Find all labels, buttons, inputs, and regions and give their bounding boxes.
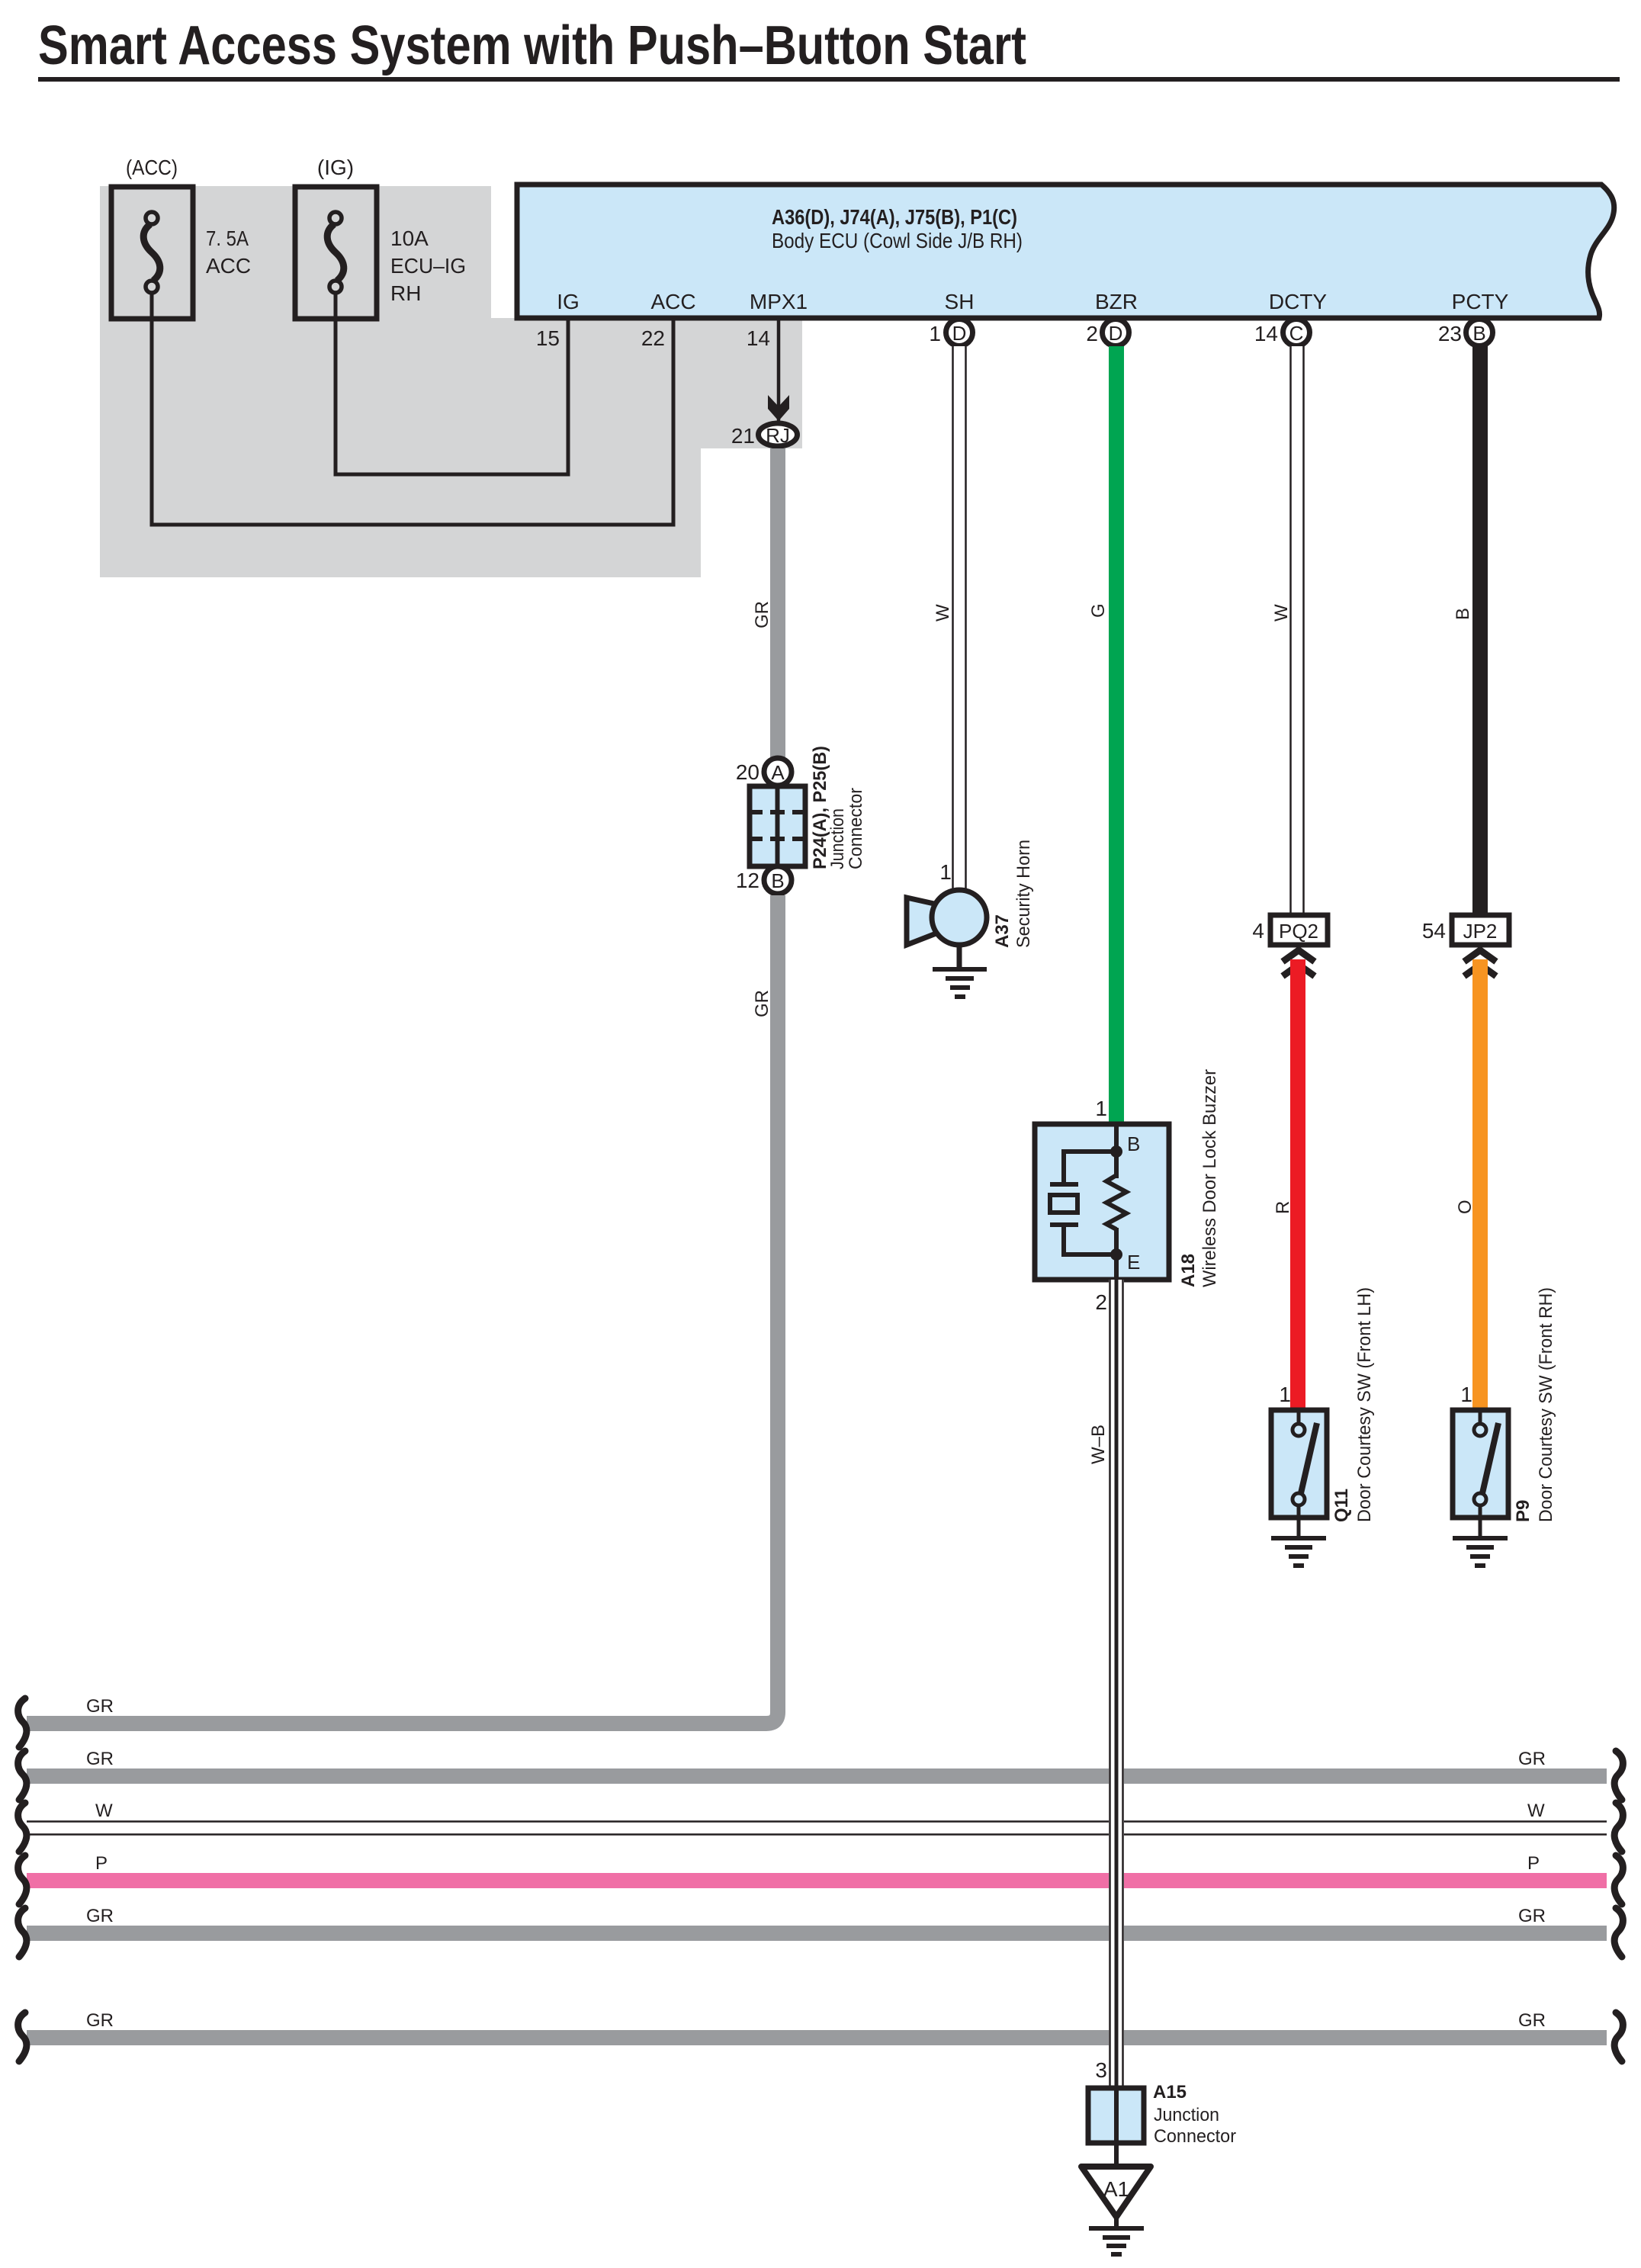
svg-text:1: 1: [939, 860, 952, 884]
svg-text:B: B: [1453, 608, 1473, 620]
MPX1 arrow wire: [777, 318, 781, 421]
svg-text:E: E: [1127, 1251, 1140, 1274]
svg-text:A1: A1: [1103, 2177, 1129, 2201]
pin 14 connector C: [1254, 320, 1310, 346]
svg-text:W: W: [1271, 604, 1292, 622]
break mark left P row4: [18, 1855, 27, 1904]
svg-text:21: 21: [731, 424, 755, 448]
fuse F1 7.5A ACC: [111, 187, 193, 319]
svg-text:1: 1: [1279, 1383, 1291, 1406]
svg-text:GR: GR: [86, 1696, 114, 1717]
svg-text:Connector: Connector: [846, 788, 866, 869]
horn ground: [933, 945, 987, 997]
horizontal wire GR row5: [27, 1926, 1607, 1941]
pin 1 connector D: [929, 320, 972, 346]
svg-text:(IG): (IG): [317, 156, 354, 179]
svg-text:Wireless Door Lock Buzzer: Wireless Door Lock Buzzer: [1199, 1069, 1220, 1287]
svg-text:B: B: [771, 869, 784, 892]
svg-text:10A: 10A: [390, 226, 429, 250]
svg-text:Smart Access System with Push–: Smart Access System with Push–Button Sta…: [38, 15, 1026, 76]
svg-text:PCTY: PCTY: [1452, 290, 1509, 313]
break mark right P row4: [1614, 1855, 1623, 1904]
svg-text:A36(D), J74(A), J75(B), P1(C): A36(D), J74(A), J75(B), P1(C): [772, 205, 1017, 229]
svg-text:Security Horn: Security Horn: [1013, 840, 1034, 948]
svg-text:Connector: Connector: [1154, 2126, 1236, 2147]
svg-text:ACC: ACC: [206, 254, 251, 278]
svg-text:Body ECU (Cowl Side J/B RH): Body ECU (Cowl Side J/B RH): [772, 229, 1023, 252]
wire O from JP2 to P9: [1472, 959, 1488, 1410]
break mark left GR row5: [18, 1908, 27, 1957]
svg-text:A15: A15: [1153, 2082, 1187, 2103]
svg-text:GR: GR: [1518, 1906, 1546, 1926]
svg-text:(ACC): (ACC): [126, 156, 178, 179]
wire G from BZR pin to buzzer: [1109, 346, 1124, 1125]
horizontal wire W row3: [27, 1820, 1607, 1836]
wire from fuse IG to ECU pin IG: [336, 293, 568, 474]
wire GR from RJ to junction connector A: [770, 448, 785, 757]
svg-text:C: C: [1289, 322, 1304, 345]
wire GR from junction B to bottom elbow and left: [27, 895, 778, 1723]
svg-text:1: 1: [929, 322, 941, 345]
svg-text:GR: GR: [752, 601, 772, 628]
svg-text:A37: A37: [992, 914, 1013, 948]
door courtesy switch Q11: [1271, 1410, 1327, 1518]
MPX1 arrowhead: [768, 395, 789, 421]
fuse F2 10A ECU-IG RH: [295, 187, 377, 319]
svg-text:14: 14: [1254, 322, 1278, 345]
break mark left W row3: [18, 1803, 27, 1852]
svg-text:14: 14: [747, 326, 770, 350]
svg-text:GR: GR: [1518, 1749, 1546, 1769]
pin 23 connector B: [1438, 320, 1493, 346]
svg-text:RJ: RJ: [766, 424, 790, 447]
svg-text:12: 12: [736, 869, 759, 892]
svg-text:O: O: [1455, 1200, 1476, 1214]
svg-text:ACC: ACC: [650, 290, 695, 313]
svg-text:B: B: [1472, 322, 1485, 345]
svg-text:Door Courtesy SW (Front LH): Door Courtesy SW (Front LH): [1354, 1287, 1375, 1522]
ground triangle A1: [1081, 2167, 1151, 2217]
svg-text:DCTY: DCTY: [1269, 290, 1328, 313]
svg-text:2: 2: [1095, 1290, 1107, 1314]
svg-text:W: W: [1527, 1801, 1545, 1821]
svg-text:54: 54: [1422, 919, 1446, 943]
P9 ground: [1453, 1505, 1508, 1566]
svg-text:BZR: BZR: [1095, 290, 1138, 313]
svg-text:Junction: Junction: [827, 808, 848, 869]
svg-text:20: 20: [736, 760, 759, 784]
horizontal wire GR row2: [27, 1768, 1607, 1784]
svg-text:1: 1: [1095, 1097, 1107, 1120]
security horn A37: [907, 890, 987, 945]
wire B from PCTY pin to JP2: [1472, 346, 1488, 915]
break mark left GR row1: [18, 1698, 27, 1747]
break mark left GR row2: [18, 1751, 27, 1800]
svg-text:RH: RH: [390, 281, 421, 305]
svg-text:15: 15: [536, 326, 560, 350]
horizontal wire GR row6: [27, 2030, 1607, 2045]
Body ECU box A36(D) J74(A) J75(B) P1(C): [517, 185, 1614, 318]
svg-text:GR: GR: [86, 1906, 114, 1926]
svg-text:P: P: [1527, 1853, 1540, 1874]
svg-text:3: 3: [1095, 2058, 1107, 2082]
wire from A15 to ground triangle: [1114, 2143, 1119, 2167]
break mark right GR row6: [1614, 2013, 1623, 2061]
horizontal wire P row4: [27, 1873, 1607, 1888]
svg-text:IG: IG: [557, 290, 580, 313]
break mark left GR row6: [18, 2013, 27, 2061]
door courtesy switch P9: [1453, 1410, 1508, 1518]
junction connector A15: [1088, 2088, 1144, 2143]
svg-text:Door Courtesy SW (Front RH): Door Courtesy SW (Front RH): [1536, 1287, 1556, 1522]
svg-text:A18: A18: [1178, 1254, 1199, 1287]
svg-text:Q11: Q11: [1331, 1489, 1352, 1522]
wire W-B from buzzer to A15: [1109, 1280, 1124, 2088]
svg-text:R: R: [1273, 1201, 1293, 1214]
svg-text:GR: GR: [86, 1749, 114, 1769]
svg-text:GR: GR: [1518, 2010, 1546, 2031]
wire from fuse ACC to ECU pin ACC: [152, 293, 673, 525]
svg-text:D: D: [952, 322, 967, 345]
svg-text:ECU–IG: ECU–IG: [390, 254, 466, 278]
gray background region: [100, 186, 802, 577]
svg-text:W: W: [95, 1801, 113, 1821]
break mark right W row3: [1614, 1803, 1623, 1852]
svg-text:W: W: [933, 604, 953, 622]
svg-text:PQ2: PQ2: [1279, 920, 1318, 943]
svg-text:SH: SH: [945, 290, 975, 313]
svg-text:W–B: W–B: [1088, 1425, 1109, 1464]
junction connector P24(A) P25(B): [750, 786, 805, 866]
PQ2 chevrons: [1283, 950, 1315, 962]
wire W from DCTY pin to PQ2: [1289, 346, 1305, 915]
ground symbol A1: [1089, 2217, 1144, 2254]
break mark right GR row5: [1614, 1908, 1623, 1957]
wire R from PQ2 to Q11: [1290, 959, 1305, 1410]
svg-text:4: 4: [1252, 919, 1264, 943]
svg-text:Junction: Junction: [1154, 2105, 1219, 2125]
Q11 ground: [1271, 1505, 1326, 1566]
RJ junction ellipse: [759, 423, 798, 446]
pin 2 connector D: [1086, 320, 1129, 346]
svg-text:1: 1: [1460, 1383, 1472, 1406]
svg-text:D: D: [1109, 322, 1123, 345]
svg-text:22: 22: [641, 326, 665, 350]
svg-text:7. 5A: 7. 5A: [206, 226, 249, 250]
svg-text:JP2: JP2: [1463, 920, 1498, 943]
svg-text:23: 23: [1438, 322, 1462, 345]
svg-text:MPX1: MPX1: [750, 290, 808, 313]
svg-text:2: 2: [1086, 322, 1098, 345]
svg-text:P9: P9: [1513, 1500, 1533, 1522]
svg-text:A: A: [771, 761, 785, 784]
svg-text:G: G: [1088, 603, 1109, 618]
svg-text:GR: GR: [86, 2010, 114, 2031]
wire W from SH pin to horn: [952, 346, 967, 891]
break mark right GR row2: [1614, 1751, 1623, 1800]
svg-text:B: B: [1127, 1132, 1140, 1155]
wireless door lock buzzer A18: [1035, 1124, 1169, 1280]
svg-text:GR: GR: [752, 990, 772, 1017]
JP2 chevrons: [1464, 950, 1496, 962]
svg-text:P: P: [95, 1853, 108, 1874]
title underline: [38, 77, 1620, 82]
